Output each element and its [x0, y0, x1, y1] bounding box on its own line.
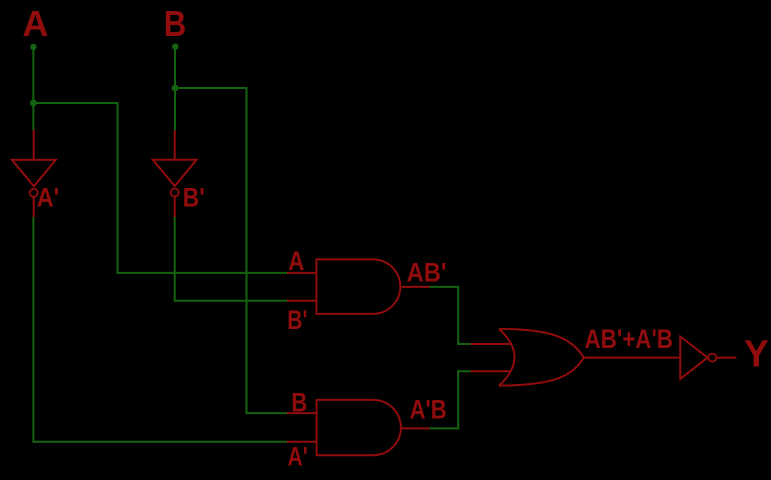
svg-text:A'B: A'B	[410, 395, 447, 425]
svg-text:B': B'	[287, 305, 307, 335]
svg-text:B: B	[164, 3, 187, 44]
svg-text:A': A'	[288, 442, 308, 472]
svg-text:Y: Y	[744, 334, 769, 376]
svg-text:A: A	[288, 246, 304, 276]
svg-text:AB': AB'	[407, 258, 447, 288]
svg-text:B': B'	[183, 183, 205, 213]
svg-text:A: A	[22, 3, 48, 44]
svg-text:AB'+A'B: AB'+A'B	[585, 324, 674, 354]
svg-text:B: B	[291, 387, 307, 417]
svg-text:A': A'	[37, 183, 59, 213]
